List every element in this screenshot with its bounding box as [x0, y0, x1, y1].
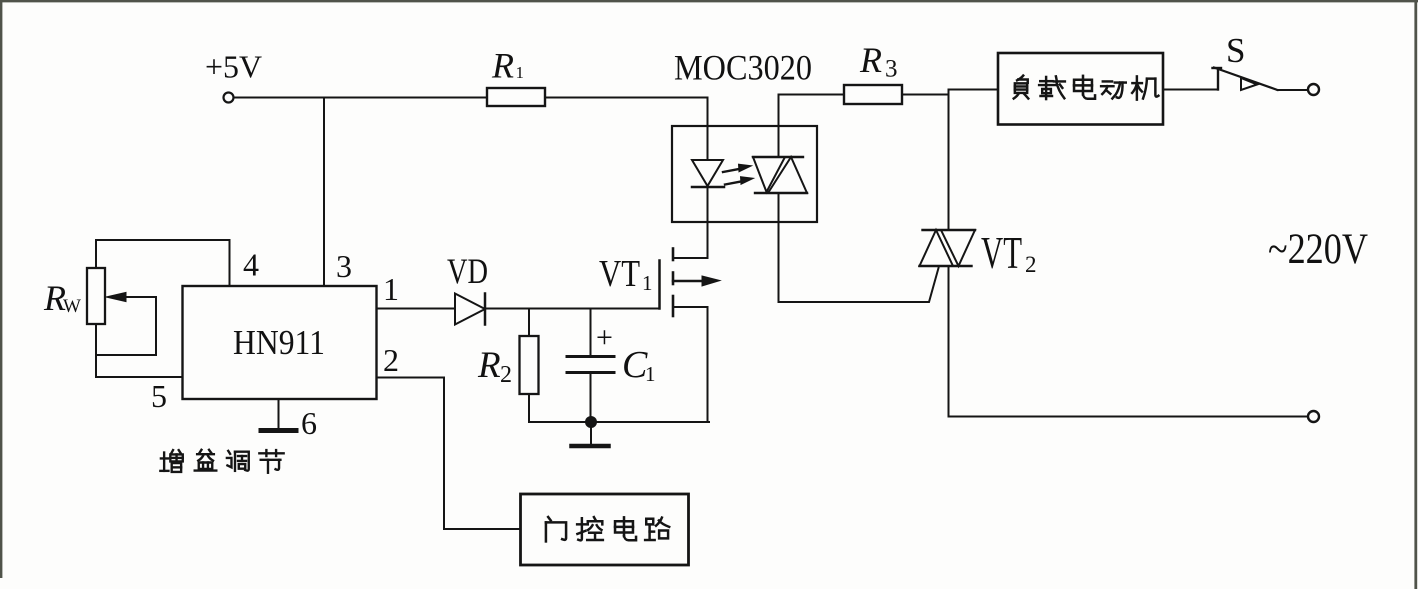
- wire VD to VT1 gate: [485, 308, 660, 310]
- IC U1 HN911 box: [183, 286, 377, 399]
- svg-text:1: 1: [642, 271, 653, 295]
- label 增益调节 (gain adjust): [160, 450, 283, 473]
- wire R3 to node: [902, 90, 998, 95]
- label 负载电动机 (load motor): [1014, 76, 1159, 100]
- wire pot top to pin4: [96, 240, 230, 286]
- svg-text:2: 2: [383, 342, 399, 378]
- svg-text:+: +: [596, 321, 613, 354]
- svg-text:R: R: [491, 46, 514, 86]
- node +5V terminal: [224, 93, 234, 103]
- switch S: [1217, 69, 1219, 90]
- svg-text:1: 1: [383, 271, 399, 307]
- resistor R1: [487, 88, 545, 106]
- svg-text:W: W: [63, 296, 81, 317]
- svg-text:2: 2: [500, 362, 512, 388]
- triac (MOC3020 output): [778, 95, 780, 158]
- gate-control box: [521, 494, 689, 565]
- wire pot bottom to pin5: [96, 324, 183, 377]
- wire bottom rail (R2/C1/VT1 source): [529, 421, 709, 423]
- svg-text:2: 2: [1025, 252, 1037, 277]
- wire pin3 vertical: [323, 98, 325, 287]
- light arrow upper: [723, 169, 740, 172]
- svg-text:R: R: [477, 345, 501, 386]
- svg-text:3: 3: [336, 248, 352, 284]
- svg-text:+5V: +5V: [205, 49, 262, 85]
- svg-text:~220V: ~220V: [1268, 226, 1368, 273]
- svg-text:3: 3: [885, 56, 898, 83]
- ground (pin6 of HN911): [278, 399, 280, 428]
- svg-text:6: 6: [301, 405, 317, 441]
- svg-text:S: S: [1226, 31, 1245, 70]
- svg-text:5: 5: [151, 378, 167, 414]
- triac VT2: [948, 90, 950, 231]
- ground (below C1): [590, 422, 592, 444]
- label 门控电路 (gate control circuit): [546, 517, 669, 541]
- svg-text:VT: VT: [599, 253, 640, 295]
- node right bottom terminal: [1308, 411, 1319, 422]
- resistor R3: [844, 85, 902, 104]
- svg-text:1: 1: [645, 362, 656, 386]
- wire pin2 to gate-control box: [377, 378, 521, 530]
- node right top terminal: [1308, 84, 1319, 95]
- svg-text:VD: VD: [447, 251, 488, 291]
- potentiometer RW body: [87, 268, 105, 324]
- capacitor C1: [590, 309, 592, 356]
- wire bottom right rail: [949, 416, 1309, 418]
- wire R1 to MOC LED anode: [545, 97, 708, 99]
- svg-text:R: R: [859, 40, 882, 80]
- wire pin1 to VD: [377, 308, 456, 310]
- svg-text:HN911: HN911: [233, 323, 325, 362]
- svg-text:MOC3020: MOC3020: [674, 48, 812, 88]
- svg-text:1: 1: [516, 63, 525, 82]
- diode LED (MOC3020 input): [707, 98, 709, 161]
- resistor R2: [528, 309, 530, 337]
- load motor box: [998, 53, 1163, 125]
- optocoupler U1 MOC3020 box: [672, 126, 817, 222]
- wire +5V rail to R1: [234, 97, 487, 99]
- wire VT1 source down to rail: [707, 307, 709, 422]
- light arrow lower: [725, 181, 742, 184]
- transistor VT1 MOSFET: [658, 261, 661, 309]
- wire RW wiper loop: [96, 297, 156, 355]
- diode VD: [455, 294, 485, 325]
- svg-text:VT: VT: [981, 228, 1022, 278]
- wire MOC pin4 to VT2 gate: [779, 268, 939, 302]
- wire motor to switch: [1163, 89, 1218, 91]
- wire switch to terminal: [1278, 89, 1308, 91]
- svg-text:4: 4: [243, 247, 259, 283]
- node junction dot: [585, 416, 597, 428]
- wire triac top to R3: [779, 94, 845, 96]
